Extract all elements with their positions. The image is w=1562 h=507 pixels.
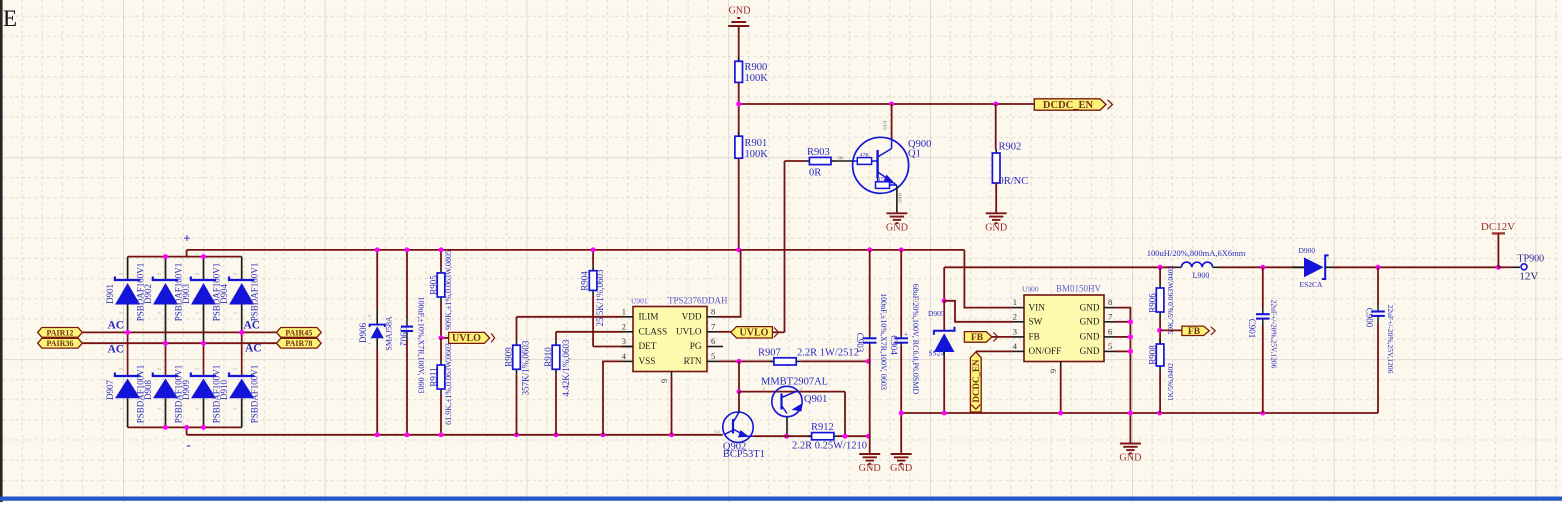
wire - step [186, 427, 188, 434]
svg-text:TPS2376DDAH: TPS2376DDAH [668, 295, 728, 305]
svg-text:R900: R900 [745, 62, 768, 73]
svg-text:FB: FB [971, 333, 984, 343]
pin 9 U901 [671, 372, 673, 378]
wire Q900 emitter to GND [896, 186, 898, 213]
svg-text:D909: D909 [181, 380, 191, 400]
junction SW/D905 [942, 298, 947, 303]
wire R900 to node DCDC_EN-row [738, 82, 740, 104]
junction Q901/R912 row [784, 434, 789, 439]
svg-text:CLASS: CLASS [639, 327, 668, 337]
diode D909 PSBDAF100V1 [191, 343, 216, 427]
pin 1 VIN U900 stub [1013, 307, 1024, 309]
wire pin6 to gnd vertical [1115, 336, 1130, 338]
svg-text:GND: GND [1080, 346, 1100, 356]
wire to TP900 [1498, 266, 1512, 268]
svg-text:59K,/5%,0.063W,0402: 59K,/5%,0.063W,0402 [1166, 265, 1175, 334]
wire node to R902 [995, 104, 997, 149]
svg-text:1: 1 [195, 408, 200, 410]
svg-text:GND: GND [859, 463, 881, 474]
wire pin7 to gnd vertical [1115, 321, 1130, 323]
junction AC1 col4 [239, 330, 244, 335]
svg-text:R904: R904 [580, 271, 590, 291]
wire DET pin3 [593, 346, 633, 348]
svg-text:1: 1 [157, 408, 162, 410]
junction -rail R911 [439, 432, 444, 437]
junction R907/C903 [866, 359, 871, 364]
svg-text:2: 2 [195, 273, 200, 275]
diode D903 PSBDAF100V1 [191, 257, 216, 344]
junction UVLO divider [439, 335, 444, 340]
svg-text:R912: R912 [811, 422, 834, 433]
junction +rail C903 [867, 247, 872, 252]
junction output C900 [1376, 265, 1381, 270]
svg-text:D900: D900 [1299, 246, 1316, 255]
wire + step [186, 250, 188, 257]
pin 8 GND U900 stub [1104, 307, 1115, 309]
svg-text:VDD: VDD [682, 312, 702, 322]
svg-text:12V: 12V [1519, 271, 1538, 283]
port FB (pin3) [964, 332, 998, 344]
svg-text:PAIR78: PAIR78 [285, 339, 312, 348]
svg-text:R908: R908 [1147, 345, 1157, 365]
wire +rail to C902 [406, 250, 408, 318]
wire +rail to R905 [440, 250, 442, 268]
svg-text:2: 2 [157, 368, 162, 370]
svg-text:1: 1 [1013, 297, 1017, 307]
svg-text:1: 1 [119, 408, 124, 410]
wire pin5 to gnd vertical [1115, 350, 1130, 352]
junction -rail D906 [375, 432, 380, 437]
svg-text:R906: R906 [1147, 293, 1157, 313]
junction R902 [993, 102, 998, 107]
junction AC2 col3 [201, 341, 206, 346]
svg-text:25.5K/1%,0603: 25.5K/1%,0603 [595, 269, 605, 326]
svg-text:2: 2 [119, 273, 124, 275]
sheet border left edge [0, 0, 3, 502]
svg-text:UVLO: UVLO [740, 328, 769, 339]
power symbol DC12V [1481, 221, 1515, 267]
svg-text:D904: D904 [219, 284, 229, 304]
svg-text:ES2CA: ES2CA [1300, 280, 1324, 289]
svg-text:D902: D902 [143, 284, 153, 304]
svg-text:OUT: OUT [883, 120, 888, 129]
wire R905 to UVLO node [440, 302, 442, 338]
svg-text:1: 1 [367, 342, 372, 344]
svg-text:2: 2 [1332, 261, 1334, 266]
port FB (divider) [1182, 326, 1215, 337]
capacitor C900 [1371, 305, 1385, 323]
diode D902 PSBDAF100V1 [153, 257, 178, 344]
svg-text:1: 1 [233, 312, 238, 314]
junction AC2 col2 [163, 341, 168, 346]
svg-text:PAIR12: PAIR12 [46, 328, 73, 337]
svg-text:U900: U900 [1022, 285, 1039, 294]
junction R912/Q901 corner [843, 434, 848, 439]
wire Q902 to R912 [753, 435, 811, 437]
svg-text:GND: GND [1080, 317, 1100, 327]
diode D901 PSBDAF100V1 [115, 257, 140, 333]
port DCDC_EN (vertical) [970, 352, 981, 412]
wire VSS pin4 [603, 361, 622, 434]
svg-text:22uF+/-20%,25V,1206: 22uF+/-20%,25V,1206 [1386, 305, 1395, 374]
junction gnd rail C901 [1260, 411, 1265, 416]
wire +rail to C904 [900, 250, 902, 336]
wire C904 to GND [900, 346, 902, 454]
junction DC12V [1496, 265, 1501, 270]
power symbol GND top [728, 6, 750, 27]
pin 7 GND U900 stub [1104, 321, 1115, 323]
diode D908 PSBDAF100V1 [153, 343, 178, 427]
diode D905 SS24 [934, 301, 955, 357]
junction gnd rail D905 [942, 411, 947, 416]
svg-text:1: 1 [622, 306, 626, 316]
svg-text:AC: AC [108, 319, 125, 331]
wire Q901 to R912 row [786, 417, 788, 437]
junction +rail C904 [899, 247, 904, 252]
port UVLO (divider) [449, 332, 495, 344]
svg-text:GND: GND [1119, 453, 1141, 464]
wire output to C900 [1377, 267, 1379, 305]
wire +rail to C903 [869, 250, 871, 336]
svg-text:UVLO: UVLO [676, 327, 702, 337]
svg-text:GND: GND [898, 192, 903, 202]
port PAIR78 [277, 338, 322, 348]
junction bridge bottom col3 [201, 425, 206, 430]
wire DCDC_EN row [739, 103, 1035, 105]
ground under R902 [985, 213, 1007, 233]
svg-text:9: 9 [659, 379, 669, 383]
wire CLASS to R910 [555, 332, 557, 340]
junction Q902 base node [737, 389, 742, 394]
svg-text:GND: GND [1080, 302, 1100, 312]
wire R912 to C903 column [838, 435, 869, 437]
wire C902 to -rail [406, 340, 408, 435]
svg-text:L900: L900 [1193, 271, 1210, 280]
svg-text:7: 7 [1108, 311, 1112, 321]
svg-text:47K: 47K [860, 153, 870, 159]
svg-text:RTN: RTN [684, 356, 702, 366]
svg-text:2: 2 [119, 368, 124, 370]
svg-text:PSBDAF100V1: PSBDAF100V1 [250, 365, 260, 424]
wire C901 to gnd rail [1262, 326, 1264, 413]
wire R903 left [785, 160, 806, 162]
svg-text:E: E [3, 6, 17, 31]
junction gnd rail R908 [1157, 411, 1162, 416]
svg-text:9: 9 [1048, 369, 1058, 373]
transistor Q900 Q1 [853, 137, 909, 193]
svg-text:C900: C900 [1365, 308, 1375, 328]
wire pin9 U900 to gnd rail [1060, 367, 1062, 413]
bridge rectifier box bottom wire [128, 426, 242, 428]
svg-text:C904: C904 [889, 335, 899, 355]
svg-text:Q1: Q1 [908, 149, 921, 160]
test point TP900 [1521, 264, 1527, 270]
svg-text:SMAJ58A: SMAJ58A [385, 316, 394, 350]
wire FB port to pin3 [992, 336, 1013, 338]
svg-text:+: + [904, 331, 908, 339]
junction RTN/Q902 branch [737, 359, 742, 364]
svg-text:357K/1%,0603: 357K/1%,0603 [521, 340, 531, 395]
pin 5 RTN stub [707, 360, 718, 362]
wire FB node to FB port [1160, 329, 1182, 331]
svg-text:68uF/20%,100V, RC6.0,P6.0SMD: 68uF/20%,100V, RC6.0,P6.0SMD [911, 284, 920, 395]
pin 4 ON/OFF U900 stub [1013, 350, 1024, 352]
ground under Q900 [886, 213, 908, 233]
pin 7 UVLO stub [707, 331, 718, 333]
svg-text:SS24: SS24 [929, 349, 945, 358]
wire UVLO node to R911 [440, 338, 442, 360]
svg-text:100nF,±10%,X7R,100V, 0603: 100nF,±10%,X7R,100V, 0603 [879, 293, 888, 390]
junction -rail R910 [554, 432, 559, 437]
svg-text:GND: GND [886, 223, 908, 234]
svg-text:0R/NC: 0R/NC [999, 176, 1029, 187]
svg-text:5: 5 [711, 351, 715, 361]
wire ILIM pin1 [517, 316, 623, 318]
wire UVLO port to vertical [772, 331, 784, 333]
svg-text:+: + [183, 231, 190, 246]
diode D907 PSBDAF100V1 [115, 332, 140, 427]
svg-text:3: 3 [622, 336, 626, 346]
wire SW jog to pin2 [944, 301, 1013, 322]
wire pin7 to UVLO port [718, 331, 731, 333]
capacitor C902 [401, 318, 413, 340]
svg-text:3: 3 [1013, 326, 1017, 336]
junction gnd pin5 [1128, 349, 1133, 354]
svg-text:2: 2 [800, 386, 802, 391]
svg-text:100nF,±10%,X7R,100V, 0603: 100nF,±10%,X7R,100V, 0603 [417, 297, 426, 394]
svg-text:R903: R903 [807, 147, 830, 158]
resistor R912 [808, 433, 838, 440]
wire SW rail to L900 [944, 266, 1175, 268]
svg-text:1K/5%,0402: 1K/5%,0402 [1166, 363, 1175, 401]
svg-text:100K: 100K [745, 149, 769, 160]
wire VDD to +rail [718, 250, 741, 317]
svg-text:R902: R902 [999, 142, 1022, 153]
ground under C903 [859, 454, 881, 474]
svg-text:SW: SW [1029, 317, 1043, 327]
junction Q900 collector [889, 102, 894, 107]
svg-text:R909: R909 [504, 347, 514, 367]
wire to UVLO port [441, 337, 449, 339]
svg-text:C901: C901 [1247, 319, 1257, 339]
svg-text:PG: PG [690, 341, 702, 351]
svg-text:PSBDAF100V1: PSBDAF100V1 [250, 263, 260, 322]
diode D900 ES2CA [1292, 255, 1339, 279]
capacitor C903 [863, 336, 877, 347]
svg-text:D905: D905 [928, 309, 945, 318]
diode D910 PSBDAF100V1 [229, 332, 254, 427]
wire to Q901 [739, 391, 845, 393]
svg-text:GND: GND [890, 463, 912, 474]
junction FB node [1157, 328, 1162, 333]
svg-text:MMBT2907AL: MMBT2907AL [761, 376, 828, 387]
svg-text:D907: D907 [105, 380, 115, 400]
junction AC1 col1 [125, 330, 130, 335]
svg-text:1: 1 [119, 312, 124, 314]
ground under C904 [890, 454, 912, 474]
wire R910 to -rail [555, 374, 557, 435]
wire output to C901 [1262, 267, 1264, 308]
svg-text:UVLO: UVLO [452, 333, 481, 344]
pin 6 GND U900 stub [1104, 336, 1115, 338]
svg-text:2: 2 [622, 321, 626, 331]
wire AC1 [82, 331, 276, 333]
junction bridge top col3 [201, 254, 206, 259]
junction -rail C902 [405, 432, 410, 437]
svg-text:FB: FB [1188, 327, 1201, 337]
svg-text:1: 1 [157, 312, 162, 314]
svg-text:2: 2 [157, 273, 162, 275]
svg-text:D910: D910 [219, 380, 229, 400]
svg-text:GND: GND [985, 223, 1007, 234]
svg-text:TP900: TP900 [1518, 254, 1545, 265]
wire Q900 collector OUT [891, 104, 893, 140]
diode D906 SMAJ58A TVS [370, 310, 385, 348]
svg-text:GND: GND [728, 6, 750, 17]
junction -rail R909 [514, 432, 519, 437]
svg-text:6: 6 [1108, 326, 1112, 336]
svg-text:VIN: VIN [1029, 302, 1046, 312]
svg-text:1: 1 [195, 312, 200, 314]
junction gnd rail U900-gnd [1128, 411, 1133, 416]
svg-text:BCP53T1: BCP53T1 [723, 449, 765, 460]
wire +rail to D906 [376, 250, 378, 310]
pin 5 GND U900 stub [1104, 350, 1115, 352]
wire +rail to R904 [592, 250, 594, 266]
svg-text:2.2R 1W/2512: 2.2R 1W/2512 [797, 348, 859, 359]
svg-text:PAIR36: PAIR36 [46, 339, 73, 348]
svg-text:IN: IN [838, 156, 843, 161]
capacitor C904 (polarized) [894, 331, 908, 347]
wire D906 to -rail [376, 348, 378, 435]
pin 3 FB U900 stub [1013, 336, 1024, 338]
op-amp U901 TPS2376DDAH chip body [633, 307, 707, 372]
transistor Q901 MMBT2907AL [772, 386, 803, 416]
svg-text:-: - [186, 437, 190, 452]
svg-text:VSS: VSS [639, 356, 656, 366]
svg-text:100K: 100K [745, 73, 769, 84]
wire L900 to D900 [1220, 266, 1304, 268]
svg-text:GND: GND [1080, 332, 1100, 342]
wire R903 down to UVLO node [784, 161, 786, 332]
wire CLASS pin2 [556, 331, 622, 333]
wire R903 to Q900 base [835, 160, 853, 162]
junction R900/R901 [736, 102, 741, 107]
port PAIR36 [38, 338, 83, 348]
wire R902 to GND [995, 183, 997, 213]
svg-text:5: 5 [1108, 341, 1112, 351]
svg-text:4.42K/1%,0603: 4.42K/1%,0603 [561, 339, 571, 396]
junction +rail R905 [439, 247, 444, 252]
svg-text:AC: AC [108, 344, 125, 356]
wire D905 to gnd rail [943, 357, 945, 414]
svg-text:BM0150HV: BM0150HV [1056, 284, 1102, 294]
wire R911 to -rail [440, 394, 442, 435]
resistor R901 [735, 132, 743, 162]
svg-text:PAIR45: PAIR45 [285, 328, 312, 337]
svg-text:R907: R907 [758, 348, 781, 359]
resistor R908 [1156, 339, 1164, 371]
resistor R909 [513, 340, 521, 374]
svg-text:DET: DET [639, 341, 657, 351]
diode D904 PSBDAF100V1 [229, 257, 254, 333]
svg-text:Q901: Q901 [804, 394, 827, 405]
regulator U900 BM0150HV chip body [1024, 295, 1104, 362]
resistor R910 [552, 340, 560, 374]
svg-text:6: 6 [711, 336, 715, 346]
resistor R902 [992, 149, 1000, 187]
wire +rail to VIN [964, 250, 1013, 308]
svg-text:100uH/20%,800mA,6X6mm: 100uH/20%,800mA,6X6mm [1147, 248, 1246, 258]
svg-text:0R: 0R [809, 168, 821, 179]
wire R906 to FB node [1159, 317, 1161, 344]
junction bridge top col2 [163, 254, 168, 259]
junction output/R906 [1158, 265, 1163, 270]
svg-text:8: 8 [1108, 297, 1112, 307]
wire R904 to DET [592, 295, 594, 346]
svg-text:D901: D901 [105, 284, 115, 304]
svg-text:R901: R901 [745, 138, 768, 149]
port DCDC_EN [1034, 99, 1112, 111]
wire Q901 emitter down [844, 392, 846, 437]
wire node to R901 [738, 104, 740, 136]
svg-text:DCDC_EN: DCDC_EN [1043, 100, 1094, 111]
resistor R907 [770, 358, 800, 365]
wire ILIM to R909 [516, 317, 518, 340]
resistor R905 [437, 268, 445, 302]
wire output to R906 [1159, 267, 1161, 283]
wire AC2 [82, 342, 276, 344]
resistor R900 [735, 57, 743, 86]
wire VSS/-rail [187, 434, 723, 436]
junction R912/C903 column [866, 434, 871, 439]
wire R908 to gnd rail [1159, 371, 1161, 413]
svg-text:2: 2 [1013, 311, 1017, 321]
svg-text:909K,±1%,0.063W,0805: 909K,±1%,0.063W,0805 [444, 250, 453, 330]
capacitor C901 [1256, 308, 1270, 326]
wire RTN to R907 [718, 360, 774, 362]
transistor Q902 BCP53T1 [723, 412, 753, 442]
wire to Q902 top pin [738, 392, 740, 413]
junction +rail R901/VDD [736, 247, 741, 252]
junction -rail pin9 [669, 432, 674, 437]
pin stub TP900 [1512, 266, 1520, 268]
wire R909 to -rail [516, 374, 518, 435]
junction gnd pin6 [1128, 334, 1133, 339]
junction gnd rail pin9 [1058, 411, 1063, 416]
svg-text:1: 1 [233, 408, 238, 410]
junction bridge bottom col2 [163, 425, 168, 430]
svg-text:2.2R 0.25W/1210: 2.2R 0.25W/1210 [792, 441, 867, 452]
junction +rail R904 [591, 247, 596, 252]
resistor R911 [437, 360, 445, 394]
svg-text:R905: R905 [429, 275, 439, 295]
pin 9 U900 [1060, 362, 1062, 368]
svg-text:DCDC_EN: DCDC_EN [971, 359, 981, 403]
svg-text:D908: D908 [143, 380, 153, 400]
svg-text:ILIM: ILIM [639, 312, 659, 322]
resistor R903 [805, 157, 835, 164]
svg-text:FB: FB [1029, 332, 1040, 342]
svg-text:2: 2 [233, 273, 238, 275]
wire GND-top to R900 [738, 26, 740, 61]
port PAIR12 [38, 328, 83, 338]
wire pin9 to -rail [671, 377, 673, 435]
wire RTN down to Q902 branch [738, 361, 740, 391]
svg-text:R910: R910 [543, 347, 553, 367]
junction gnd rail C904 [899, 411, 904, 416]
svg-text:AC: AC [244, 320, 261, 332]
